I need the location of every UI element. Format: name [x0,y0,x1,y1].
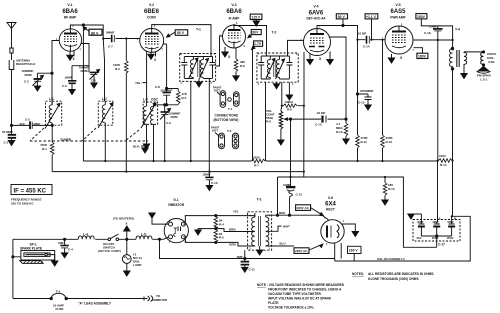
svg-text:80 V: 80 V [177,31,185,35]
svg-text:80V: 80V [252,31,259,35]
ground under C-15 [365,105,371,110]
svg-text:40MF: 40MF [417,220,424,224]
svg-text:R-12: R-12 [386,140,393,144]
ground under V-2 [148,52,154,59]
ground under L-3 [143,144,149,149]
svg-text:C-9: C-9 [166,121,171,125]
T-3 box [248,212,272,250]
150V stem and top wire [421,19,452,49]
buffer resistor R-4 [214,215,218,230]
svg-text:T-4: T-4 [455,28,460,32]
T-2 ground arrow [286,82,292,100]
trimmer capacitor C-9 [160,105,171,161]
ground under C-4 [61,253,67,258]
WHT wire label [283,225,290,229]
svg-text:K=ONE THOUSAND (1000) OHMS: K=ONE THOUSAND (1000) OHMS [368,277,419,281]
svg-text:C-2: C-2 [25,118,30,122]
svg-text:C-4: C-4 [68,248,73,252]
plate wire y38.5 with capacitor C-7 [103,35,140,43]
V-3 internals [228,25,241,48]
capacitor C-12 [286,177,295,215]
svg-text:T-1: T-1 [228,107,233,111]
R-8 wiper arrow [285,118,294,120]
T-1 bottom view [217,91,239,108]
V-4 plate wire [317,26,358,40]
notes right [352,272,364,276]
svg-text:RF AMP: RF AMP [64,16,77,20]
T-2 left coil [266,56,275,79]
V-2 plate wire to T-1 [152,25,211,54]
svg-text:T-1: T-1 [196,28,201,32]
svg-text:50 MMF: 50 MMF [2,130,13,134]
ammeter connector [144,296,153,302]
V-6 to B line [335,243,342,261]
svg-text:PLATE.: PLATE. [268,301,279,305]
T-1 AVC feed [208,79,210,172]
svg-text:V-3: V-3 [231,3,236,7]
vibrator top line to T-3 [183,216,254,225]
svg-text:V-1: V-1 [67,3,72,7]
svg-text:C-6: C-6 [91,79,96,83]
svg-text:BLK.: BLK. [133,145,140,149]
T-2 detector output [281,82,283,106]
voice coil wires [464,51,485,67]
X mark V-5 [400,56,403,60]
svg-text:PWR AMP: PWR AMP [390,16,406,20]
B+ vertical to bus (left of R-14) [437,40,439,161]
T-3 primary coil [252,213,255,247]
svg-text:6BE6: 6BE6 [144,9,160,15]
svg-text:180V: 180V [418,55,427,59]
choke L-5 [141,233,146,237]
AVC bus [52,172,304,177]
svg-text:C-3: C-3 [24,80,29,84]
svg-text:IF AMP: IF AMP [229,17,241,21]
RED wire to V-6 [266,214,329,220]
svg-text:250V: 250V [447,236,454,240]
wire antenna to L-1 [12,124,53,126]
spark plate taps [12,255,58,266]
V-6 internals [327,225,339,239]
capacitor C-15 [358,94,372,105]
svg-text:TUNER: TUNER [60,138,72,142]
left down lead [12,239,14,298]
svg-text:1MEG: 1MEG [285,100,294,104]
tube V-1 6BA6 labels [67,3,72,7]
voltage box 115V [250,14,262,19]
C-17 common negative [421,235,451,247]
YEL wire V-2 to L-3 [143,51,147,107]
resistor R-2 on AVC drop [125,39,129,172]
resistor R-1 [50,142,54,172]
ground under C-11 [242,267,248,272]
svg-text:500MMF: 500MMF [161,89,173,93]
svg-text:V-5: V-5 [395,3,400,7]
spark plate hatched bar [20,261,43,264]
junction dots on AF wire [356,39,383,41]
filter cap verticals [438,161,453,223]
IF transformer T-2 label [272,31,277,35]
heater note [113,217,134,226]
dial lamp I-1 [122,238,131,271]
svg-text:YEL.: YEL. [135,81,142,85]
svg-text:L-3: L-3 [143,98,148,102]
buffer resistor R-5 [214,229,218,244]
capacitor C-11 [241,250,250,267]
svg-text:50 V: 50 V [338,15,346,19]
svg-text:R-4: R-4 [219,222,224,226]
detector line R-9 [282,104,304,108]
svg-text:1000: 1000 [439,154,446,158]
voltage box 80V (V-1) [89,29,102,35]
IF transformer T-1 box [180,54,216,82]
ground under R-8 [278,139,284,145]
electrolytic C-17 box [413,220,460,242]
tube V-1 envelope [59,29,81,51]
ground under R-13 [382,200,388,205]
BLU wire label [280,242,286,246]
vertical from V-4 diode [303,52,305,172]
svg-text:RECEPTACLE: RECEPTACLE [16,62,35,66]
trimmer capacitor C-3 [32,73,52,86]
svg-text:1MF: 1MF [58,241,64,245]
svg-text:R-6: R-6 [240,64,245,68]
T-1 B+ feed from bus [190,81,192,161]
resistor R-3 [176,89,180,105]
svg-text:+1.1 V: +1.1 V [366,15,377,19]
antenna receptacle label [16,59,35,67]
C-17 cap 3 [448,222,455,236]
RED wire label [279,211,286,215]
voltage box 80V (V-2) [175,30,188,36]
ground under C-10 [206,186,212,191]
resistor R-6 [234,48,238,76]
resistor R-14 [438,159,454,163]
capacitor C-4 [60,238,68,253]
svg-text:R-14: R-14 [440,163,447,167]
tube V-3 envelope [223,25,246,48]
V-5 plate wire to T-4 [413,39,453,41]
svg-text:T-3: T-3 [257,198,262,202]
svg-text:NOM: NOM [171,115,179,119]
tube V-2 6BE6 labels [149,3,154,7]
svg-text:6BA6: 6BA6 [226,9,242,15]
svg-text:GRN: GRN [229,242,236,246]
resistor R-11 drop [356,40,360,161]
svg-text:R-8: R-8 [266,120,271,124]
svg-text:25V: 25V [417,236,422,240]
svg-text:BLU: BLU [280,242,286,246]
ground under V-1 cathode [67,51,73,60]
connections title [214,114,239,122]
capacitor C-8 [162,93,170,105]
receptacle symbol [9,60,14,125]
svg-text:FUSE: FUSE [56,307,64,311]
V-6 cathode out [342,224,359,237]
T-4 secondary ground [461,74,467,79]
svg-text:10MF: 10MF [447,220,454,224]
svg-text:DOT: DOT [212,129,218,133]
audio enclosure top edge [278,177,437,247]
wiper junction drop [289,118,291,177]
svg-text:.5MF: .5MF [236,255,243,259]
osc branch wire [163,44,178,92]
svg-text:YEL: YEL [233,210,239,214]
svg-text:NOTE : VOLTAGE READINGS SHOWN: NOTE : VOLTAGE READINGS SHOWN WERE MEASU… [257,283,345,287]
ground under C-1 [8,141,14,146]
svg-text:.01 MF: .01 MF [357,32,367,36]
wiper wire with capacitor C-13 [293,116,346,123]
svg-text:RECT: RECT [326,208,335,212]
YEL label [135,81,142,85]
+1.1V stem [371,19,373,40]
A lead bottom [13,298,144,300]
capacitor C-10 [205,172,213,186]
svg-text:200: 200 [20,122,25,126]
svg-text:.02MF: .02MF [283,183,292,187]
output transformer T-4 label [455,28,460,32]
voltage box 295VAC top [296,205,311,211]
on-off switch [108,234,119,241]
resistor R-13 [383,177,387,200]
svg-text:T-2: T-2 [227,129,232,133]
T-1 left capacitor [181,57,187,79]
vibrator labels [168,198,185,207]
svg-text:V-2: V-2 [149,3,154,7]
power transformer T-3 label [257,198,262,202]
tube V-5 6AS5 labels [395,3,400,7]
svg-text:C-5: C-5 [62,84,67,88]
svg-text:40MF: 40MF [432,220,439,224]
capacitor C-2 [30,121,32,129]
resistor R-12 drop [381,40,385,161]
svg-text:T-2: T-2 [272,31,277,35]
T-1 core [198,60,200,77]
voltage box 180V [417,53,428,58]
BLK label and arrow [133,145,140,149]
L-2 coil [98,101,113,128]
svg-text:INPUT VOLTAGE WAS 6.6V DC AT S: INPUT VOLTAGE WAS 6.6V DC AT SPARK [268,297,332,301]
T-3 core ground [256,246,262,255]
50V stem [342,19,344,27]
GRN wire label [229,242,236,246]
svg-text:150V: 150V [417,15,426,19]
svg-text:C-14: C-14 [363,45,370,49]
L-1 coil [45,101,60,128]
svg-text:6AS5: 6AS5 [390,9,406,15]
L-2 to bus [104,125,106,161]
ground under R-6 [233,76,239,81]
svg-text:R-2: R-2 [115,67,120,71]
svg-text:(ON VOL CONT): (ON VOL CONT) [98,249,121,253]
svg-text:R-5: R-5 [219,236,224,240]
svg-text:C-12: C-12 [296,193,303,197]
svg-text:C-8: C-8 [155,85,160,89]
T-2 right coil [276,56,285,79]
svg-text:C-10: C-10 [211,181,218,185]
connections diagram labels [213,86,221,93]
svg-text:OSC: OSC [151,98,159,102]
pin number digits [56,23,415,251]
svg-text:80 V: 80 V [91,31,99,35]
svg-text:ALL RESISTORS ARE INDICATED IN: ALL RESISTORS ARE INDICATED IN OHMS. [368,272,434,276]
tube V-4 6AV6 labels [313,5,318,9]
V-4 internals [309,29,325,52]
IF frequency box [11,185,52,195]
svg-text:V-6: V-6 [328,196,333,200]
voice coil label [487,52,496,64]
svg-text:LAMP: LAMP [133,263,142,267]
svg-text:160 V: 160 V [349,249,359,253]
svg-text:115 V: 115 V [252,15,261,19]
svg-text:SPARK PLATE: SPARK PLATE [20,247,42,251]
heater up arrow [124,226,130,239]
svg-text:535 TO 1600 KC: 535 TO 1600 KC [11,202,34,206]
T-3 secondary coil [266,217,269,247]
note bottom [257,283,345,310]
ground under C-5 [69,90,75,95]
tube V-3 6BA6 labels [231,3,236,7]
svg-text:DET-AVC-AF: DET-AVC-AF [306,17,325,21]
svg-text:2000MMF: 2000MMF [360,89,374,93]
YEL wire label [233,210,239,214]
V-3 plate wire [234,24,267,56]
V-4 AF wire to V-5 with C-14 [358,36,385,44]
antenna [7,23,16,49]
A lead label [78,302,112,306]
T-2 B+ stem to bus [265,82,267,161]
BRN wire label [229,228,236,232]
volume control R-8 [279,106,283,139]
C-17 values [417,220,454,224]
voltage box 295VAC bottom [294,248,309,254]
T-2 secondary out to V-4 [288,40,304,56]
heater to vibrator [152,237,168,239]
osc grid bottom wire to L-3 [154,104,179,106]
T-2 chassis arrow [273,82,279,89]
L-1 to R-1 [51,124,53,142]
voltage box 80V (V-3) [251,30,261,35]
T-1 top/bottom tie wires [184,54,212,79]
IF transformer T-1 label [196,28,201,32]
junction dots C-7 [102,37,127,39]
V-4 grounds [307,52,333,65]
svg-text:3.2Ω: 3.2Ω [488,60,495,64]
A/B labels [439,217,458,221]
vibrator bottom line [183,237,254,246]
svg-text:VIBRATOR: VIBRATOR [168,203,185,207]
ground under R-10 [343,139,349,144]
V-2 internals [145,29,159,53]
heater line [13,238,136,240]
spark plate SP-1 [20,242,42,250]
svg-text:L S-1: L S-1 [480,78,488,82]
capacitor C-1 [8,124,16,140]
X mark V-2 [155,52,157,57]
speaker LS-1 [477,66,491,73]
bus junction dots [104,159,453,172]
tube V-2 envelope [140,28,164,52]
svg-text:R-13: R-13 [388,187,395,191]
C-17 cap 1 [418,214,425,236]
chassis arrow C-17 [408,214,422,219]
svg-text:WHT: WHT [283,225,290,229]
grid wire V-1 [51,41,59,105]
vertical wire x83 to bus [82,24,84,161]
wire C-7 to L-2 [103,39,104,102]
T-4 primary coil [450,47,454,70]
V-1 plate wire to top [70,25,103,39]
svg-text:.01 MF: .01 MF [316,111,326,115]
T-2 tie wires [261,56,289,79]
voltage box 1.7V [254,41,263,46]
svg-text:IF = 455 KC: IF = 455 KC [14,189,47,195]
fuse F-1 [50,293,67,299]
svg-text:.05MF: .05MF [64,76,73,80]
vibrator G-1 [164,219,188,243]
T-2 left capacitor [258,56,264,79]
svg-text:DIAL NO ASSEMBLY-C: DIAL NO ASSEMBLY-C [377,257,405,261]
svg-text:C-11: C-11 [249,268,256,272]
svg-text:C-17: C-17 [438,243,445,247]
resistor R-10 [344,119,348,139]
svg-text:F-1: F-1 [56,290,61,294]
svg-text:NOM.: NOM. [25,73,33,77]
IF transformer T-2 box [257,53,298,82]
svg-text:VACUUM TUBE TYPE VOLTMETER.: VACUUM TUBE TYPE VOLTMETER. [268,292,322,296]
svg-text:MMF: MMF [34,122,41,126]
tube V-4 envelope [304,29,331,56]
voltage box +1.1V [365,14,378,19]
svg-text:V-4: V-4 [313,5,318,9]
X mark V-3 [228,55,231,59]
svg-text:NOTES:: NOTES: [352,272,364,276]
tube V-5 envelope [385,26,413,54]
mid line to T-3 center tap [216,229,255,232]
svg-text:VOLTAGE TOLERANCE ± 10%.: VOLTAGE TOLERANCE ± 10%. [268,306,314,310]
svg-text:5MMF: 5MMF [106,31,115,35]
svg-text:R-11: R-11 [361,140,368,144]
trimmer capacitor C-6 [89,66,100,83]
ground under I-1 [124,271,130,276]
svg-text:R-1: R-1 [42,147,47,151]
resistor R-7 [252,159,266,163]
svg-text:RED: RED [279,211,286,215]
svg-text:R-3: R-3 [182,96,187,100]
X mark V-4 [319,57,322,61]
antenna plug [9,48,14,60]
T-4 core [457,50,460,67]
voltage box 160V [348,246,362,261]
capacitor C-16 [433,26,443,40]
svg-text:FROM POINT INDICATED TO CHASSI: FROM POINT INDICATED TO CHASSIS, USING A [268,288,342,292]
tube V-6 envelope [321,220,344,243]
svg-text:1.7V: 1.7V [254,42,262,46]
T-1 right coil [200,57,209,79]
svg-text:295V AC: 295V AC [297,206,310,210]
vibrator bottom drop to B- line [158,238,334,258]
V-5 internals [392,26,406,48]
X mark V-1 [73,51,75,57]
svg-text:CONV: CONV [147,16,157,20]
svg-text:"A" LEAD ASSEMBLY: "A" LEAD ASSEMBLY [78,302,112,306]
tuner L-3 [143,98,159,102]
T-1 out to V-3 [216,36,223,66]
T-2 right capacitor [286,56,292,79]
voltage box 50V [336,14,347,19]
svg-text:C-7: C-7 [108,45,113,49]
vibrator chassis stub [149,213,169,224]
